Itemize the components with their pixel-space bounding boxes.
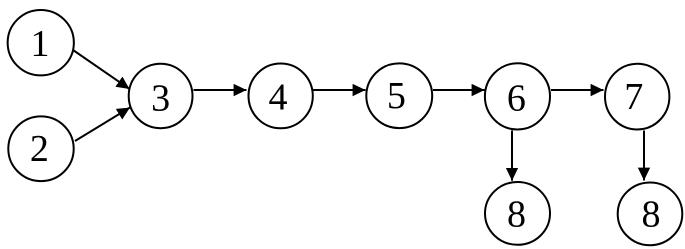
svg-text:4: 4 [269,77,288,119]
wire: arrow 1 to 3 [73,50,130,89]
node 2 [8,116,73,181]
wire: arrow 4 to 5 [313,89,366,91]
svg-text:5: 5 [387,75,406,117]
svg-text:2: 2 [30,128,49,170]
wire: arrow 7 to 8 (right) [643,131,645,181]
svg-text:3: 3 [151,77,170,119]
svg-text:8: 8 [507,194,526,236]
wire: arrow 2 to 3 [75,108,130,142]
wire: arrow 3 to 4 [194,89,247,91]
svg-text:1: 1 [31,23,50,65]
svg-text:6: 6 [507,77,526,119]
node 4 [249,64,313,129]
svg-text:7: 7 [624,76,643,118]
node 8 (left, under 6) [485,182,550,245]
svg-text:8: 8 [642,194,661,236]
wire: arrow 6 to 7 [551,89,604,91]
node 8 (right, under 7) [618,183,683,246]
wire: arrow 5 to 6 [433,89,485,91]
node 7 [605,64,669,130]
node 1 [8,10,74,75]
wire: arrow 6 to 8 (left) [511,131,513,181]
node 3 [129,64,193,129]
node 6 [485,63,550,129]
node 5 [366,63,432,128]
